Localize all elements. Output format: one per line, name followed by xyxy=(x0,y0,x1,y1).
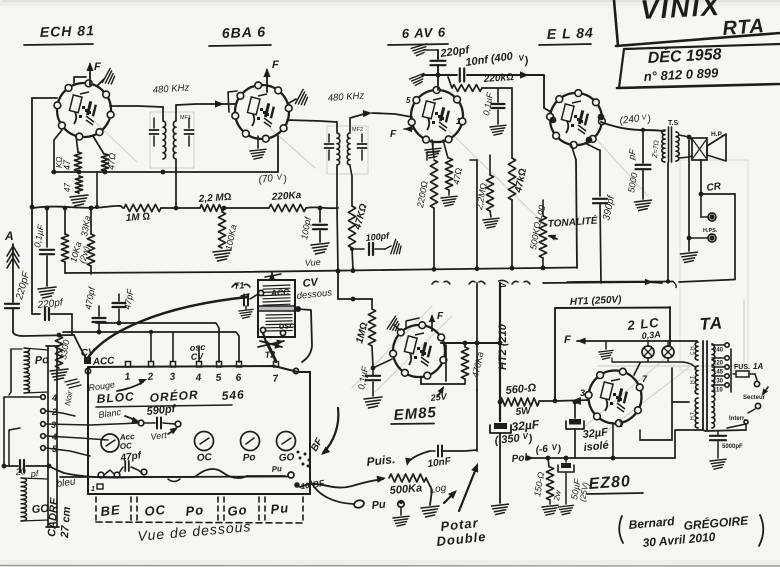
TA primary xyxy=(712,344,715,428)
dial lamp 1 xyxy=(642,346,654,358)
capacitor 32uF isole xyxy=(574,402,576,418)
svg-text:BLOC: BLOC xyxy=(96,389,135,406)
svg-text:6 AV 6: 6 AV 6 xyxy=(402,24,447,41)
svg-text:OC: OC xyxy=(196,452,213,464)
ground at ECH81 top right xyxy=(97,79,104,86)
svg-text:RTA: RTA xyxy=(722,15,766,40)
svg-text:5: 5 xyxy=(406,96,411,105)
svg-text:Po: Po xyxy=(242,452,256,464)
wire transformer return to Pol xyxy=(675,430,703,458)
wire 2,2M to 220K xyxy=(224,207,269,209)
svg-text:Vue: Vue xyxy=(304,257,321,268)
svg-text:220Ka: 220Ka xyxy=(270,190,302,203)
wire 10nF to pot arrow xyxy=(408,451,430,462)
svg-text:3: 3 xyxy=(51,420,56,430)
svg-text:GO: GO xyxy=(278,452,295,464)
capacitor 100pf vertical xyxy=(319,208,321,222)
wire 560 to EZ80 pin3 xyxy=(539,400,555,402)
capacitor 0,1uF EM85 xyxy=(372,346,373,367)
svg-text:OC: OC xyxy=(120,441,133,451)
svg-text:H.PS.: H.PS. xyxy=(703,228,718,234)
svg-text:27 cm: 27 cm xyxy=(59,506,73,539)
TA secondary CH xyxy=(695,342,698,360)
wire CV box top to chassis xyxy=(271,272,273,280)
dial lamp 2 xyxy=(662,346,674,358)
svg-text:(70: (70 xyxy=(258,173,274,186)
svg-text:): ) xyxy=(497,279,509,284)
svg-text:ECH 81: ECH 81 xyxy=(40,22,96,40)
EM85 top ground xyxy=(394,325,400,330)
svg-text:3: 3 xyxy=(580,388,585,398)
potentiometer 500K Puis xyxy=(389,474,426,482)
ground on F line xyxy=(605,341,607,349)
capacitor 5000pF xyxy=(642,131,644,163)
capacitor 50uF 25V xyxy=(564,456,569,461)
capacitor 5000uF xyxy=(717,431,719,435)
wire left column down xyxy=(31,98,33,311)
wire 220pf down to bus xyxy=(71,314,73,335)
resistor 1M horizontal xyxy=(124,204,161,211)
resistor 47K det xyxy=(351,176,353,206)
EL84 cathode down xyxy=(571,144,576,160)
wire 6BA6 plate to MF2 xyxy=(287,120,337,122)
wire TS to speaker xyxy=(679,135,692,140)
TA bottom wire xyxy=(703,430,746,431)
capacitor 32uF 350V xyxy=(498,400,503,405)
resistor 2,2M 6AV6 xyxy=(489,155,491,175)
svg-text:1: 1 xyxy=(91,486,95,493)
wire EL84 bottom right xyxy=(585,143,599,150)
svg-text:F: F xyxy=(390,129,397,140)
date box xyxy=(624,44,780,49)
bloc oreor box xyxy=(88,366,298,372)
svg-text:145: 145 xyxy=(713,370,724,376)
wire 10nF up right xyxy=(476,390,478,451)
capacitor 220pF antenna series xyxy=(5,303,19,305)
bloc pin squares xyxy=(126,362,131,368)
wire MF2 right bottom xyxy=(350,166,352,176)
wire TS secondary return xyxy=(667,163,669,281)
capacitor 100pf horiz xyxy=(352,248,364,250)
TA secondary HT xyxy=(695,398,698,428)
EZ80 pin7 wire xyxy=(634,363,640,375)
terminal 10 BF xyxy=(294,482,300,488)
wire term5 xyxy=(46,448,90,456)
wire chassis to 1M node xyxy=(337,271,339,299)
ECH81 F supply arrow xyxy=(89,64,91,85)
tube EZ80 xyxy=(589,371,642,424)
IF transformer MF1 xyxy=(163,121,166,159)
resistor 2200 6AV6 xyxy=(432,140,434,158)
svg-text:CR: CR xyxy=(706,181,723,194)
ECH81 top bracket wire xyxy=(74,77,86,83)
svg-text:5000pF: 5000pF xyxy=(722,444,743,450)
wire 220k right xyxy=(482,87,512,89)
wire term4 xyxy=(46,436,108,440)
resistor 47k under ECH81 left xyxy=(74,152,81,171)
EL84 plate wire right xyxy=(601,122,663,131)
resistor 150 ohm 2W xyxy=(546,456,551,461)
svg-text:CV: CV xyxy=(190,351,204,362)
wire pin3 up xyxy=(172,332,174,361)
wire lamps to transformer xyxy=(612,361,683,363)
wire EM85 plate to HT2 xyxy=(441,342,500,344)
resistor 220K horizontal xyxy=(269,204,306,211)
wire CV box right terminal xyxy=(295,306,301,312)
wire ECH81 plate to MF1 xyxy=(110,106,163,107)
wire bus to pin6 xyxy=(63,332,239,362)
wire MF1 to 6BA6 grid xyxy=(176,104,236,105)
resistor 220k 6AV6 xyxy=(452,85,482,92)
EM85 F arrow xyxy=(431,316,433,331)
title box VINIX RTA xyxy=(614,0,618,46)
svg-text:FUS.: FUS. xyxy=(734,364,750,371)
ground left on plate wire xyxy=(409,73,426,86)
resistor 2,2M horizontal xyxy=(200,205,224,212)
svg-text:47: 47 xyxy=(63,183,72,192)
svg-text:1A: 1A xyxy=(753,362,763,371)
svg-text:240: 240 xyxy=(713,348,724,354)
tube EM85 xyxy=(393,325,445,377)
resistor 47ohm 6AV6 xyxy=(443,140,448,158)
6BA6 cathode to ground xyxy=(257,136,259,148)
IF transformer MF2 xyxy=(337,133,340,165)
wire bus up to 6BA6 cathode xyxy=(277,136,279,172)
wire 220K out xyxy=(306,206,338,209)
TA selector bar xyxy=(730,349,732,392)
signature parens xyxy=(619,516,623,543)
tube 6BA6 xyxy=(235,85,289,139)
ground right of 6BA6 xyxy=(289,99,296,103)
svg-text:H.T.: H.T. xyxy=(690,411,696,420)
svg-text:Secteur: Secteur xyxy=(743,395,766,401)
wire AVC wavy y=207 xyxy=(33,206,124,208)
wire pot to ground xyxy=(426,478,432,505)
wire x477 upper xyxy=(476,160,478,268)
coil Po winding xyxy=(24,348,30,393)
resistor 3300 xyxy=(55,336,62,368)
rod terminals xyxy=(41,395,46,400)
bloc terminal 0 xyxy=(85,368,90,373)
arrow potar short xyxy=(444,492,455,503)
trimmer Po xyxy=(241,432,260,451)
coil Go winding xyxy=(21,478,27,521)
CR terminal wires xyxy=(688,140,690,251)
resistor 47k under ECH81 right xyxy=(101,154,108,171)
dashed compartment box xyxy=(95,497,97,521)
capacitor 390pf xyxy=(593,198,607,200)
svg-text:25V: 25V xyxy=(429,391,448,403)
grid bus wire y=172 xyxy=(52,171,278,173)
resistor 1M EM85 xyxy=(371,299,373,309)
trimmer Acc OC xyxy=(101,434,119,452)
svg-text:F: F xyxy=(437,311,444,322)
svg-text:1M Ω: 1M Ω xyxy=(125,211,150,224)
svg-text:Go: Go xyxy=(227,502,249,519)
svg-text:5W: 5W xyxy=(515,405,533,418)
wire MF2 bottom to chassis xyxy=(336,166,338,208)
transformer TA core xyxy=(702,341,704,430)
wire bleu to bloc xyxy=(49,466,288,478)
svg-text:(-6: (-6 xyxy=(535,444,549,456)
bracket row (chassis pass-throughs) xyxy=(432,281,450,284)
svg-text:130: 130 xyxy=(713,379,724,385)
svg-text:OC: OC xyxy=(144,502,167,519)
wire MF2 to 6AV6 xyxy=(350,114,364,132)
wire term2 xyxy=(46,411,75,416)
svg-text:47Ω: 47Ω xyxy=(106,152,117,170)
svg-text:KΩ: KΩ xyxy=(55,157,64,168)
ECH81 cathode wires to bus xyxy=(76,136,78,152)
TA secondary mid xyxy=(695,366,698,394)
chassis junction dots xyxy=(336,269,341,274)
svg-text:546: 546 xyxy=(221,387,245,403)
wire bloc to Pu loop xyxy=(310,480,353,504)
trimmer OC xyxy=(195,432,214,451)
svg-text:T.S: T.S xyxy=(668,120,678,127)
svg-text:A: A xyxy=(4,229,14,243)
junction dots on wavy bus xyxy=(63,206,68,211)
CV box (tuning gang underside) xyxy=(258,280,295,337)
svg-text:EM85: EM85 xyxy=(393,404,437,424)
wire grid to EM85 xyxy=(373,359,392,368)
svg-text:4: 4 xyxy=(51,393,57,403)
capacitor 10nf 400V xyxy=(459,69,461,82)
svg-text:VINIX: VINIX xyxy=(640,0,722,25)
svg-text:MF1: MF1 xyxy=(180,115,191,121)
curved wire CV to T1 xyxy=(87,297,248,359)
wire 6AV6 top xyxy=(437,75,439,90)
svg-text:T1: T1 xyxy=(233,280,244,291)
6BA6 top bracket xyxy=(228,91,237,112)
capacitor 47pF xyxy=(118,294,120,301)
6BA6 F arrow xyxy=(266,70,268,92)
bloc internal loop xyxy=(168,479,180,482)
resistor 100K vertical xyxy=(218,212,225,248)
svg-text:F: F xyxy=(272,59,279,71)
svg-text:Pu: Pu xyxy=(271,464,282,474)
wire antenna to coil bus xyxy=(13,332,74,336)
svg-text:C.H.: C.H. xyxy=(690,345,696,355)
svg-text:Po: Po xyxy=(34,354,49,367)
resistor 33K xyxy=(90,208,92,234)
svg-text:Pu: Pu xyxy=(371,499,387,512)
capacitor 470pf xyxy=(98,306,100,316)
wire EM85 bottom xyxy=(420,377,422,384)
trimmer Go xyxy=(277,432,296,451)
svg-text:220: 220 xyxy=(713,361,724,367)
wire bus corner to CV terminal xyxy=(74,335,86,358)
svg-text:TA: TA xyxy=(699,313,724,334)
TA taps xyxy=(712,344,724,346)
arrow potar long xyxy=(459,466,477,511)
svg-text:EZ80: EZ80 xyxy=(588,473,631,493)
tube 6AV6 xyxy=(411,90,463,142)
oscillator coil T2 xyxy=(263,333,276,362)
capacitor 0,1uF 6AV6 xyxy=(497,88,499,102)
svg-text:Pu: Pu xyxy=(270,500,290,517)
terminal Pu left xyxy=(353,499,365,509)
CR loop wire xyxy=(701,193,735,195)
svg-text:Po: Po xyxy=(185,502,205,519)
svg-text:20: 20 xyxy=(14,466,26,477)
6AV6 ground below xyxy=(432,142,434,147)
svg-text:F: F xyxy=(94,61,101,73)
svg-text:pF: pF xyxy=(626,148,638,162)
HT2 bus xyxy=(499,283,501,421)
svg-text:osc: osc xyxy=(278,320,294,331)
tube EL84 xyxy=(550,93,602,145)
svg-text:ACC: ACC xyxy=(269,287,290,298)
wire grid EL84 xyxy=(544,108,551,112)
wire BF out S-curve xyxy=(300,479,383,488)
capacitor 0,1uF AVC xyxy=(46,208,48,247)
wire ECH81 left xyxy=(32,97,57,99)
scan crease lines (decorative) xyxy=(95,122,137,162)
svg-text:110: 110 xyxy=(713,388,723,394)
grounds above 6AV6 xyxy=(411,44,429,57)
capacitor 20pf xyxy=(4,465,18,467)
resistor 470K xyxy=(464,343,466,347)
terminal Pu right grounded xyxy=(398,501,404,507)
svg-text:HT2 (210: HT2 (210 xyxy=(497,323,509,370)
svg-text:BE: BE xyxy=(100,502,122,519)
wire x477 down xyxy=(476,283,478,390)
svg-text:H.T.: H.T. xyxy=(690,375,696,384)
bloc internal wire xyxy=(60,469,285,478)
svg-text:220kΩ: 220kΩ xyxy=(482,72,514,85)
chassis line Vue xyxy=(65,268,577,274)
svg-text:1: 1 xyxy=(456,117,461,126)
wire pin7 thick xyxy=(267,342,276,361)
resistor 47K 6AV6 xyxy=(511,88,513,158)
svg-text:Puis.: Puis. xyxy=(366,452,396,469)
tube ECH81 xyxy=(57,83,111,137)
svg-text:MF2: MF2 xyxy=(352,127,363,133)
svg-text:0,3A: 0,3A xyxy=(641,329,661,341)
potentiometer tonalite xyxy=(542,200,544,216)
wire MF1 right bottom down xyxy=(175,160,177,208)
EZ80 pin1 wire xyxy=(612,423,614,458)
resistor 10K 2W xyxy=(64,208,66,234)
wire plate row y=75 xyxy=(422,74,457,76)
svg-text:E L 84: E L 84 xyxy=(547,24,595,42)
CV ACC terminal xyxy=(84,357,91,364)
resistor 47k to ground below bus xyxy=(75,176,82,193)
wire term3 to Blanc terminal xyxy=(46,423,139,425)
svg-text:1: 1 xyxy=(618,419,623,429)
wire T1 to CV box xyxy=(250,294,258,299)
secteur terminals xyxy=(755,374,757,380)
wire bus to pin5 xyxy=(96,323,219,362)
rod left wires xyxy=(3,397,5,466)
svg-text:6BA 6: 6BA 6 xyxy=(222,23,267,41)
ferrite rod xyxy=(47,346,49,527)
wire pin4 up xyxy=(198,346,200,361)
EM85 top bracket xyxy=(406,318,419,328)
svg-text:F: F xyxy=(564,334,571,346)
